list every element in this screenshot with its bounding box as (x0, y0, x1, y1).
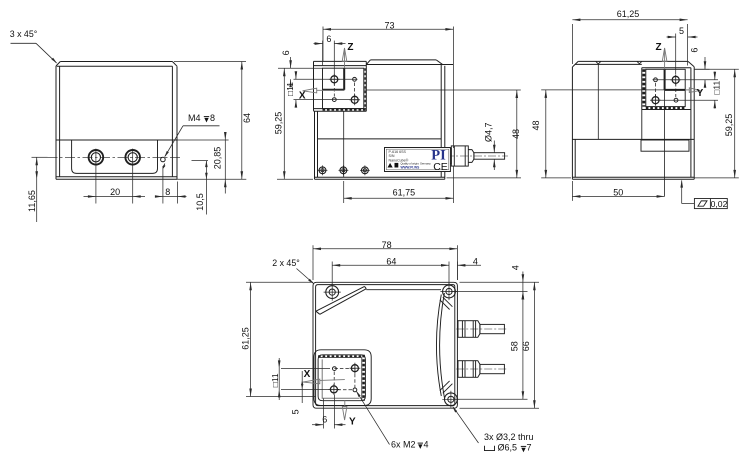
view 4: dashed hole links (334, 367, 355, 369)
view 4: dim square 11 left (281, 367, 330, 369)
view 4: inner offset line gray (322, 359, 359, 398)
view 4: hole TR crossed (350, 363, 361, 374)
view 4: Y axis (344, 401, 346, 407)
svg-text:□11: □11 (711, 81, 721, 95)
svg-text:□11: □11 (270, 373, 280, 387)
view 1: dim 20 (95, 165, 97, 204)
view 3: flatness leader (682, 203, 695, 205)
view 2: hole BL (332, 98, 336, 102)
svg-text:48: 48 (531, 120, 541, 130)
view 2: dim diameter 4,7 (493, 141, 495, 153)
view 4: dim 4 top (456, 262, 458, 281)
view 3: dashed hole links (655, 83, 657, 97)
view 1: counterbore hole left (89, 149, 104, 166)
svg-text:73: 73 (384, 20, 394, 30)
view 4: dim 4 right vertical (451, 291, 528, 293)
svg-text:78: 78 (382, 240, 392, 250)
svg-text:8: 8 (165, 187, 170, 197)
view 2: label small symbols (388, 163, 399, 168)
view 2: type label plate (385, 148, 451, 172)
view 4: X axis (320, 379, 345, 382)
view 1: dim 10,5 (192, 160, 209, 162)
view 2: bellows hatch right band (364, 68, 366, 108)
svg-text:64: 64 (386, 257, 396, 267)
svg-text:WWW.PI.WS: WWW.PI.WS (401, 166, 420, 170)
view 3: dim 59,25 right (694, 68, 739, 70)
svg-text:Y: Y (697, 88, 704, 99)
view 1: leader M4 (183, 125, 220, 127)
view 4: dim 66 right (460, 281, 540, 283)
svg-text:61,75: 61,75 (393, 187, 416, 197)
svg-text:2 x 45°: 2 x 45° (272, 258, 299, 268)
svg-text:6: 6 (689, 48, 699, 53)
view 4: body chamfer band diagonal (316, 286, 365, 311)
svg-text:50: 50 (613, 188, 623, 198)
view 1: hole centerline (48, 156, 181, 158)
view 2: three bottom screw holes (318, 165, 328, 175)
view 4: mounting hole BR (442, 391, 459, 408)
view 3: dim 61,25 top (571, 24, 573, 64)
svg-text:8: 8 (210, 113, 215, 123)
svg-text:4: 4 (510, 265, 520, 270)
svg-text:Y: Y (349, 417, 356, 428)
view 3: dim 50 bottom (571, 181, 573, 201)
view 4: bellows hatch top band (318, 355, 362, 357)
view 4: platform outer rounded square (314, 350, 371, 406)
svg-text:Z: Z (656, 42, 662, 53)
svg-text:Ø4,7: Ø4,7 (483, 123, 493, 143)
svg-text:4: 4 (473, 256, 478, 266)
view 4: corner tab edges top-right (440, 300, 450, 310)
svg-text:61,25: 61,25 (617, 9, 640, 19)
svg-text:64: 64 (242, 113, 252, 123)
view 2: dim 61,75 bottom (343, 181, 345, 203)
svg-text:S/N: S/N (389, 154, 395, 158)
view 3: hole BR (674, 98, 678, 102)
view 2: dim 6 top (322, 41, 324, 66)
view 1: dim 11,65 (32, 156, 48, 158)
view 4: dim 6 bottom (322, 399, 324, 429)
view 4: mounting hole TR (440, 283, 457, 300)
view 2: platform inner square (323, 68, 364, 108)
svg-text:P-616 6SS: P-616 6SS (389, 150, 407, 154)
view 3: dim square 11 right (653, 79, 719, 81)
view 4: corner tab edges bottom-right (440, 381, 450, 391)
view 4: dim 58 right (453, 398, 528, 400)
view 4: mounting hole TL (324, 284, 341, 301)
svg-text:4: 4 (424, 439, 429, 449)
view 2: Z axis (344, 50, 346, 69)
view 1: counterbore hole right (125, 149, 140, 166)
view 2: dashed hole links (333, 83, 335, 97)
view 2: hole TR (353, 77, 357, 81)
view 4: counterbore symbol line (485, 446, 495, 451)
svg-text:48: 48 (511, 129, 521, 139)
svg-text:59,25: 59,25 (274, 112, 284, 135)
view 4: leader 6x M2 depth 4 (357, 392, 390, 445)
svg-text:6: 6 (326, 34, 331, 44)
view 3: slot recess lower right (641, 140, 689, 151)
svg-text:59,25: 59,25 (724, 114, 734, 137)
view 4: leader 3x holes (453, 407, 479, 443)
view 2: hole TL crossed (329, 74, 340, 85)
view 3: hole BL crossed (650, 95, 661, 106)
view 2: cable gland connector (445, 146, 505, 166)
svg-text:6: 6 (322, 414, 327, 424)
view 1: dim 8 (162, 166, 164, 204)
view 2: platform block (314, 60, 367, 62)
view 2: X axis (317, 89, 345, 91)
view 4: plate outline outer (313, 282, 457, 408)
view 2: main body outline (366, 64, 453, 66)
view 2: quadrant thick L (343, 68, 345, 90)
view 3: reference line left at origin height (541, 89, 664, 91)
view 3: lid seam notch 2 (637, 61, 642, 63)
view 3: quadrant thick L (664, 69, 666, 90)
svg-text:3 x 45°: 3 x 45° (10, 29, 37, 39)
view 4: hole BL crossed (329, 384, 340, 395)
view 4: platform inner square (318, 355, 365, 401)
view 2: dim 48 right (447, 177, 522, 179)
svg-text:□11: □11 (285, 82, 295, 96)
view 4: bellows hatch right band (362, 355, 365, 401)
view 4: dim 61,25 left (246, 281, 313, 283)
svg-text:66: 66 (521, 341, 531, 351)
view 4: dim 5 (301, 371, 303, 403)
svg-text:10,5: 10,5 (195, 193, 205, 211)
view 2: dim 59,25 (277, 178, 313, 180)
view 2: bellows hatch bottom band (323, 109, 367, 111)
view 3: Z axis (664, 50, 666, 70)
view 3: bellows hatch bottom band (646, 107, 685, 109)
view 3: dim 48 left (541, 177, 571, 179)
view 3: Y axis (685, 89, 689, 91)
view 2: reference line at origin height (364, 89, 521, 91)
view 3: hole TL (654, 78, 658, 82)
view 4: dim 78 top (312, 245, 314, 280)
svg-text:7: 7 (527, 443, 532, 453)
svg-text:Z: Z (347, 42, 353, 53)
svg-text:5: 5 (679, 26, 684, 36)
svg-text:61,25: 61,25 (240, 327, 250, 350)
svg-text:M4: M4 (188, 113, 201, 123)
view 3: dim 6 right vertical (694, 68, 709, 70)
view 3: flatness tolerance frame (694, 199, 727, 209)
view 2: dim 73 top (322, 27, 324, 62)
view 3: lid seam notch (596, 61, 601, 64)
view 4: dim 64 top (331, 262, 333, 286)
svg-text:6x M2: 6x M2 (391, 439, 416, 449)
view 4: plate outline inner (316, 285, 455, 406)
view 1: dim 20,85 (177, 139, 229, 141)
svg-text:20,85: 20,85 (213, 147, 223, 170)
svg-text:CE: CE (433, 161, 448, 173)
svg-text:X: X (304, 369, 311, 380)
view 2: hole BR crossed (349, 94, 360, 105)
view 4: hole TL (333, 367, 337, 371)
svg-text:0,02: 0,02 (711, 199, 728, 209)
view 3: bellows hatch left band (642, 69, 645, 106)
svg-text:3x Ø3,2 thru: 3x Ø3,2 thru (484, 432, 534, 442)
svg-text:6: 6 (281, 50, 291, 55)
view 4: hole BR (353, 388, 357, 392)
svg-text:Ø6,5: Ø6,5 (498, 443, 518, 453)
view 1: front recess plate (72, 140, 158, 173)
view 2: dim 6 left vertical (290, 57, 292, 68)
view 4: connector upper (458, 321, 504, 338)
svg-text:11,65: 11,65 (27, 190, 37, 212)
svg-text:58: 58 (510, 341, 520, 351)
view 4: connector lower (458, 361, 504, 378)
view 4: right side arcs (436, 295, 441, 397)
view 3: platform square (642, 67, 691, 69)
view 3: axis vertical line down (664, 90, 666, 196)
view 3: body outline (578, 60, 688, 62)
svg-text:20: 20 (110, 187, 120, 197)
view 3: platform column line (641, 110, 643, 140)
view 1: M4 hole (161, 157, 166, 162)
view 3: dim 5 top (675, 34, 677, 75)
view 2: dim square 11 (294, 78, 358, 80)
view 1: side view body outline (60, 61, 172, 63)
view 2: ext line inner square top (278, 67, 323, 69)
svg-text:5: 5 (291, 409, 301, 414)
view 3: hole TR crossed (670, 74, 681, 85)
view 1: dim 64 (174, 61, 246, 63)
